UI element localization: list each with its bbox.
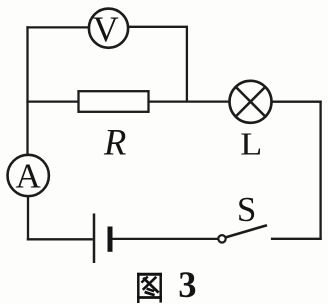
wire left rail lower segment	[27, 196, 29, 240]
wire from lamp to right rail	[271, 101, 322, 103]
wire middle horizontal from resistor to lamp	[148, 100, 230, 102]
resistor R1 body	[79, 91, 149, 112]
svg-text:L: L	[240, 126, 262, 162]
svg-text:A: A	[16, 156, 42, 195]
wire right rail vertical	[319, 101, 321, 240]
wire top horizontal right segment	[128, 26, 188, 28]
wire top-left vertical (left rail upper segment)	[26, 26, 28, 155]
wire vertical drop from top wire to middle wire	[186, 27, 188, 102]
wire middle horizontal from left rail to resistor	[26, 100, 79, 102]
wire between battery and switch	[112, 238, 219, 240]
svg-text:R: R	[103, 122, 126, 163]
switch S1	[218, 225, 267, 242]
wire bottom left segment (ammeter to battery)	[27, 238, 93, 240]
caption: character 图 drawn as strokes	[137, 273, 162, 303]
voltmeter V1	[89, 9, 128, 49]
svg-text:3: 3	[178, 264, 196, 304]
ammeter A1	[8, 155, 49, 196]
wire bottom right segment (switch right lead)	[271, 238, 322, 240]
battery cell BT1	[94, 214, 110, 264]
svg-text:V: V	[93, 9, 119, 49]
svg-text:S: S	[237, 190, 256, 229]
lamp L1	[230, 81, 272, 123]
wire top horizontal left segment	[26, 26, 89, 28]
